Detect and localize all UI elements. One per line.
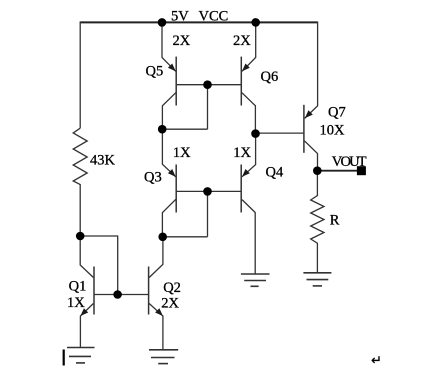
svg-text:VOUT: VOUT bbox=[332, 154, 367, 170]
svg-text:↵: ↵ bbox=[371, 353, 382, 368]
svg-text:Q4: Q4 bbox=[266, 165, 284, 181]
svg-text:1X: 1X bbox=[233, 145, 251, 161]
svg-text:10X: 10X bbox=[320, 122, 346, 138]
svg-text:VCC: VCC bbox=[199, 9, 229, 25]
svg-text:Q6: Q6 bbox=[261, 69, 279, 85]
svg-text:1X: 1X bbox=[67, 295, 85, 311]
svg-text:Q1: Q1 bbox=[69, 278, 87, 294]
svg-text:Q3: Q3 bbox=[144, 170, 162, 186]
svg-text:5V: 5V bbox=[171, 9, 189, 25]
svg-text:R: R bbox=[330, 213, 340, 229]
svg-text:2X: 2X bbox=[173, 33, 191, 49]
svg-text:2X: 2X bbox=[233, 33, 251, 49]
svg-text:2X: 2X bbox=[161, 295, 179, 311]
svg-text:Q7: Q7 bbox=[328, 105, 346, 121]
svg-text:43K: 43K bbox=[90, 153, 116, 169]
svg-text:Q5: Q5 bbox=[146, 64, 164, 80]
svg-text:1X: 1X bbox=[173, 145, 191, 161]
svg-text:Q2: Q2 bbox=[163, 280, 181, 296]
